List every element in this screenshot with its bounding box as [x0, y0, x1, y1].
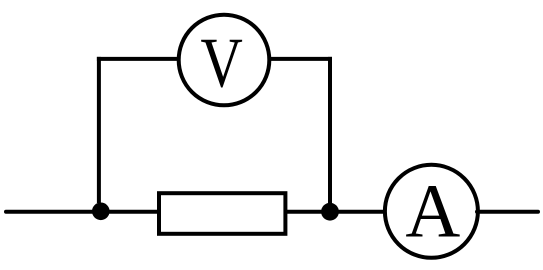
node A (left junction dot) — [92, 203, 110, 221]
wire top left segment — [97, 57, 180, 61]
ammeter A1 circle — [385, 165, 478, 258]
wire node A to resistor — [100, 210, 159, 214]
svg-text:V: V — [201, 24, 243, 103]
wire left lead — [6, 210, 100, 214]
voltmeter V1 circle — [179, 15, 270, 106]
wire resistor to node B — [285, 210, 330, 214]
resistor R1 — [159, 193, 285, 234]
wire top right segment — [268, 57, 332, 61]
wire right lead — [477, 210, 538, 214]
wire node B to ammeter — [330, 210, 387, 214]
wire left vertical branch — [97, 57, 101, 203]
wire right vertical branch — [328, 57, 332, 203]
svg-text:A: A — [405, 170, 460, 254]
node B (right junction dot) — [321, 203, 339, 221]
voltmeter V1 label — [201, 24, 243, 103]
